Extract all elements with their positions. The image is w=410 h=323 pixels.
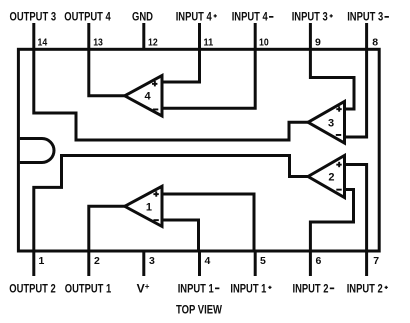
svg-text:OUTPUT 1: OUTPUT 1 [65,282,112,296]
svg-text:10: 10 [259,37,269,49]
svg-text:INPUT 4: INPUT 4 [232,9,268,23]
svg-text:INPUT 3: INPUT 3 [347,9,383,23]
svg-text:INPUT 3: INPUT 3 [292,9,328,23]
svg-text:3: 3 [149,255,155,267]
svg-text:13: 13 [93,37,103,49]
svg-text:1: 1 [146,201,152,213]
svg-text:4: 4 [205,255,211,267]
svg-text:INPUT 2: INPUT 2 [293,282,329,296]
svg-text:INPUT 1: INPUT 1 [230,282,266,296]
svg-text:9: 9 [315,37,321,49]
svg-text:INPUT 2: INPUT 2 [347,282,383,296]
svg-text:12: 12 [148,37,158,49]
svg-text:11: 11 [204,37,214,49]
svg-text:2: 2 [94,255,100,267]
svg-text:3: 3 [328,117,334,129]
svg-text:6: 6 [316,255,322,267]
svg-text:1: 1 [39,255,45,267]
svg-text:OUTPUT 2: OUTPUT 2 [9,282,56,296]
svg-text:7: 7 [373,255,379,267]
svg-text:INPUT 4: INPUT 4 [176,9,212,23]
svg-text:GND: GND [132,9,153,23]
svg-text:8: 8 [372,37,378,49]
svg-text:2: 2 [328,172,334,184]
svg-text:INPUT 1: INPUT 1 [178,282,214,296]
svg-text:5: 5 [260,255,266,267]
svg-text:OUTPUT 4: OUTPUT 4 [64,9,111,23]
svg-text:TOP VIEW: TOP VIEW [176,303,222,317]
svg-text:14: 14 [38,37,48,49]
svg-text:4: 4 [145,90,152,102]
svg-text:OUTPUT 3: OUTPUT 3 [10,9,57,23]
